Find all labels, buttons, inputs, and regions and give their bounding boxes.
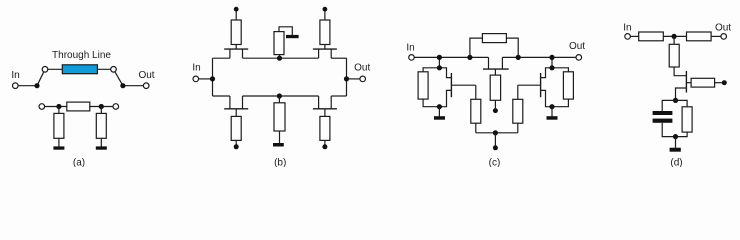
node main In junction (c) [437, 55, 442, 60]
wire through line to right switch (a) [97, 68, 113, 70]
wire to Out port (a) [123, 85, 146, 87]
svg-text:Out: Out [354, 63, 370, 74]
capacitor C1 (d) [653, 111, 673, 123]
resistor gate Q8 (d) [691, 78, 715, 87]
resistor R2 shunt left (a) [54, 113, 64, 138]
resistor bottom shunt (b) [274, 103, 285, 131]
control terminal Q8 (d) [722, 80, 727, 85]
wire control Q4 (b) [324, 140, 326, 145]
node shunt split right (c) [549, 65, 554, 70]
node shunt bottom right (c) [549, 104, 554, 109]
svg-text:Out: Out [138, 70, 154, 81]
wire input riser (b) [212, 58, 214, 96]
resistor shunt (d) [669, 44, 679, 67]
node bridge right (c) [516, 55, 521, 60]
wire control Q1 (b) [235, 11, 237, 20]
port Out (d) [721, 34, 727, 40]
wire In to switch node (a) [18, 85, 37, 87]
svg-text:In: In [406, 43, 414, 54]
wire to ground (d) [675, 137, 677, 148]
wire switch to through line (a) [45, 68, 62, 70]
wire top path right (b) [331, 57, 346, 59]
wire bottom path left (b) [213, 95, 230, 97]
wire control Q8 (d) [715, 82, 722, 84]
node right switch (a) [120, 83, 125, 88]
switch pole right (a) [111, 67, 117, 73]
wire top shunt stub (b) [279, 55, 281, 59]
switch arm left (a) [37, 69, 45, 85]
port In (b) [193, 76, 199, 82]
through line TL1 [62, 65, 97, 74]
resistor R3 shunt right (a) [96, 113, 106, 138]
wire to ground right (a) [100, 138, 102, 146]
ground (d) [670, 148, 681, 152]
node shunt bottom left (c) [437, 104, 442, 109]
wire shunt left (a) [58, 107, 60, 114]
wire In port (d) [630, 35, 638, 37]
wire to shunt resistor (d) [676, 100, 688, 106]
port Out (b) [360, 76, 366, 82]
wire bias rail (c) [476, 132, 518, 134]
node top shunt (b) [277, 56, 282, 61]
transistor Q8 (d) [674, 67, 691, 100]
wire shunt right (a) [100, 107, 102, 114]
port left pad (a) [39, 104, 45, 110]
wire attenuator left (a) [45, 106, 67, 108]
control terminal V2 (c) [493, 145, 498, 150]
node left switch (a) [34, 83, 39, 88]
node pad right (a) [99, 104, 104, 109]
svg-text:(a): (a) [73, 157, 85, 167]
wire top path left (b) [213, 57, 230, 59]
node bridge left (c) [467, 55, 472, 60]
wire top path middle (b) [243, 57, 319, 59]
ground right (c) [547, 116, 558, 120]
ground top (b) [286, 35, 299, 38]
ground bottom (b) [273, 143, 284, 147]
wire bottom shunt to ground (b) [279, 131, 281, 143]
svg-text:In: In [192, 63, 200, 74]
port In (c) [409, 55, 415, 61]
control terminal Q4 (b) [322, 144, 327, 149]
wire bias rail right stub (c) [517, 123, 519, 133]
wire shunt riser left (c) [438, 57, 440, 67]
resistor gate Q5 (c) [490, 75, 500, 100]
transistor Q7 shunt right (c) [518, 68, 552, 107]
wire control V2 (c) [494, 133, 496, 146]
resistor gate Q7 (c) [513, 99, 523, 123]
wire bottom path middle (b) [243, 95, 319, 97]
wire In to node (b) [199, 78, 213, 80]
wire bridge right (c) [506, 38, 518, 57]
svg-text:Out: Out [569, 41, 585, 52]
control terminal Q3 (b) [234, 144, 239, 149]
resistor series left (d) [639, 32, 664, 41]
wire bottom shunt stub (b) [278, 96, 280, 104]
svg-text:(d): (d) [670, 157, 682, 167]
node Out (b) [344, 76, 349, 81]
ground right (a) [96, 146, 107, 149]
control terminal Q1 (b) [234, 7, 239, 12]
node In (b) [210, 76, 215, 81]
wire gate drop left (c) [475, 85, 477, 99]
wire to ground left (c) [438, 107, 440, 117]
resistor shunt left (c) [418, 72, 428, 99]
node bottom shunt (b) [277, 93, 282, 98]
wire to ground right (c) [551, 107, 553, 117]
wire main line right (c) [502, 56, 576, 58]
node pad left (a) [56, 104, 61, 109]
switch pole left (a) [42, 67, 48, 73]
resistor shunt right (c) [563, 72, 573, 99]
svg-text:Out: Out [715, 23, 731, 34]
resistor bridge (c) [482, 34, 506, 43]
resistor bottom shunt (d) [682, 107, 692, 132]
resistor R1 series (a) [67, 102, 90, 111]
transistor Q6 shunt left (c) [439, 68, 475, 107]
wire control Q3 (b) [235, 140, 237, 145]
ground left (c) [434, 116, 445, 120]
wire main line left (c) [414, 56, 488, 58]
wire to capacitor (d) [662, 100, 675, 111]
wire gate drop right (c) [517, 85, 519, 99]
control terminal V1 (c) [493, 108, 498, 113]
resistor gate Q4 (b) [320, 116, 330, 140]
node shunt split left (c) [437, 65, 442, 70]
transistor Q1 (b) [224, 45, 248, 59]
ground left (a) [53, 146, 64, 149]
port Out (c) [576, 55, 582, 61]
wire shunt resistor bottom right (c) [552, 99, 568, 107]
node T junction (d) [672, 34, 677, 39]
wire to shunt resistor left (c) [423, 68, 439, 72]
port Out (a) [143, 83, 149, 89]
wire node to Out port (b) [347, 78, 360, 80]
port In (a) [13, 83, 19, 89]
transistor Q3 (b) [224, 96, 248, 116]
node source bottom (d) [673, 134, 678, 139]
svg-text:Through Line: Through Line [52, 50, 111, 61]
resistor gate Q6 (c) [471, 99, 481, 123]
resistor gate Q3 (b) [231, 116, 241, 140]
wire output riser (b) [346, 58, 348, 96]
port In (d) [625, 34, 631, 40]
wire shunt resistor bottom left (c) [423, 99, 439, 107]
wire attenuator right (a) [90, 106, 113, 108]
wire shunt riser right (c) [551, 57, 553, 67]
svg-text:In: In [11, 70, 19, 81]
transistor Q5 series (c) [483, 57, 509, 75]
wire control Q2 (b) [324, 11, 326, 20]
control terminal Q2 (b) [323, 7, 328, 12]
resistor top shunt (b) [274, 32, 284, 55]
wire shunt resistor bottom (d) [676, 132, 688, 137]
wire control V1 (c) [494, 100, 496, 108]
wire Out port (d) [711, 35, 721, 37]
resistor gate Q1 (b) [231, 20, 241, 45]
switch arm right (a) [114, 69, 123, 85]
wire bottom path right (b) [331, 95, 346, 97]
resistor gate Q2 (b) [320, 20, 330, 45]
node main Out junction (c) [549, 55, 554, 60]
wire bias rail left stub (c) [475, 123, 477, 133]
wire top shunt to ground (b) [279, 27, 292, 35]
port right pad (a) [113, 104, 119, 110]
svg-text:(b): (b) [274, 157, 286, 167]
resistor series right (d) [687, 32, 712, 41]
wire middle (d) [663, 35, 686, 37]
transistor Q2 (b) [313, 45, 337, 59]
wire capacitor bottom (d) [662, 123, 675, 137]
svg-text:(c): (c) [489, 157, 501, 167]
svg-text:In: In [623, 23, 631, 34]
wire bridge left (c) [470, 38, 483, 57]
wire shunt stub (d) [673, 36, 675, 44]
transistor Q4 (b) [313, 96, 337, 116]
wire to ground left (a) [58, 138, 60, 146]
wire to shunt resistor right (c) [552, 68, 568, 72]
node bias rail (c) [493, 130, 498, 135]
node source top (d) [673, 98, 678, 103]
